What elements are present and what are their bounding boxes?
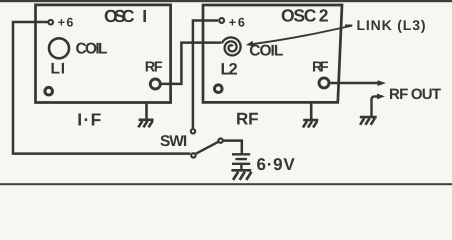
svg-text:I: I [142, 6, 147, 26]
svg-text:OSC 2: OSC 2 [281, 6, 329, 26]
svg-text:LINK (L3): LINK (L3) [357, 17, 426, 33]
svg-text:RF: RF [236, 110, 259, 129]
svg-text:L2: L2 [221, 61, 238, 79]
svg-text:LI: LI [51, 61, 66, 78]
svg-text:SWI: SWI [160, 133, 187, 150]
svg-text:RF OUT: RF OUT [389, 86, 441, 103]
svg-text:6·9V: 6·9V [257, 155, 296, 174]
svg-text:RF: RF [145, 60, 163, 76]
svg-text:COIL: COIL [249, 42, 283, 59]
svg-text:COIL: COIL [76, 41, 108, 58]
svg-text:+6: +6 [58, 15, 74, 29]
svg-text:OSC: OSC [104, 6, 135, 26]
svg-text:RF: RF [312, 60, 329, 76]
